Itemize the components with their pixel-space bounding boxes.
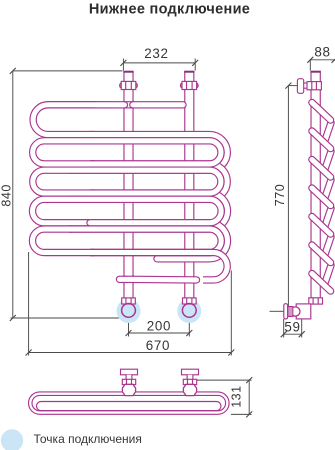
- extension line top of 840: [13, 70, 123, 72]
- side bottom wall nut: [287, 307, 293, 317]
- tick 670 left: [26, 350, 32, 356]
- tick 131 top: [246, 377, 252, 383]
- left riser tube: [123, 71, 133, 300]
- extension line 131 bottom: [231, 413, 252, 415]
- svg-text:131: 131: [229, 385, 243, 407]
- bottom view fitting right : ball: [183, 384, 196, 395]
- bottom view inner tube outline: [37, 402, 222, 411]
- coil return tube of pair 4 with inner right turn 4: [69, 229, 221, 252]
- tick 770 bottom: [285, 308, 291, 314]
- top fitting nut left riser: [121, 81, 136, 89]
- rung joint cup at left riser right edge: [130, 101, 134, 108]
- tick 232 right: [192, 60, 198, 66]
- extension line 88 left: [309, 60, 311, 71]
- side bottom ball: [291, 307, 300, 316]
- bottom crossbar tube: [120, 276, 197, 284]
- side bottom elbow body: [296, 304, 311, 319]
- svg-text:59: 59: [284, 320, 300, 335]
- svg-text:840: 840: [0, 184, 13, 206]
- dimension line 131: [248, 380, 250, 414]
- bottom view outer tube outline: [29, 392, 230, 414]
- top fitting nut right riser: [182, 81, 197, 89]
- coil band tube 5 with outer right turn 4: [90, 223, 228, 259]
- dimension line 670: [29, 352, 232, 354]
- svg-text:770: 770: [273, 184, 287, 206]
- side tube top cap: [310, 71, 320, 73]
- rung joint cap at left riser left edge: [123, 101, 127, 108]
- extension line 59 left: [283, 319, 285, 338]
- side back coil tube 6: [325, 265, 331, 283]
- left coil turn 1: [33, 105, 95, 135]
- svg-text:200: 200: [147, 319, 171, 334]
- side back coil tube 1: [325, 123, 331, 141]
- coil band tube 6 with end turn: [90, 253, 227, 280]
- side top bracket wall plate: [297, 79, 303, 94]
- coil return tube of pair 1 with inner right turn 1: [69, 141, 221, 164]
- bottom view fitting right : valve handle: [182, 369, 199, 375]
- tick 840 top: [10, 68, 16, 74]
- coil band tube 4 with outer right turn 3: [69, 193, 228, 229]
- top tube T1 with crossbar to right riser: [62, 101, 183, 108]
- dimension line 840: [12, 71, 14, 318]
- crossbar joint cup at left riser right edge: [130, 276, 134, 283]
- dimension line 200: [129, 332, 190, 334]
- extension line 770 bottom: [270, 310, 284, 312]
- side coil tube 1: [312, 103, 331, 121]
- extension line left of 670: [28, 252, 30, 356]
- bottom view fitting left : ball: [122, 384, 135, 395]
- extension line 131 top: [196, 379, 252, 381]
- tick 200 left: [126, 330, 132, 336]
- extension line right of 670: [230, 271, 232, 356]
- bottom view middle tube outline: [32, 395, 226, 410]
- coil band tube 3 with outer right turn 2: [69, 164, 227, 199]
- svg-text:Точка подключения: Точка подключения: [34, 432, 142, 446]
- left coil turn 2: [33, 141, 95, 164]
- side back coil tube 2: [325, 151, 331, 169]
- side top bracket arm: [303, 82, 312, 88]
- left coil turn 5: [32, 229, 95, 252]
- side back coil tube 3: [325, 180, 331, 198]
- coil return tube of pair 3 with inner right turn 3: [69, 199, 221, 222]
- left riser top cap: [123, 71, 133, 73]
- tick 59 left: [281, 331, 287, 337]
- tick 59 right: [299, 331, 305, 337]
- bottom view fitting left : stem: [126, 375, 133, 380]
- svg-text:Нижнее подключение: Нижнее подключение: [89, 1, 250, 17]
- side coil tube 7: [312, 274, 331, 292]
- side coil tube 3: [312, 160, 331, 178]
- side back coil tube 4: [325, 208, 331, 226]
- tick 770 top: [285, 83, 291, 89]
- extension line 770 top: [288, 85, 297, 87]
- tick 88 right: [332, 57, 335, 63]
- side coil tube 4: [312, 188, 331, 206]
- legend connection point circle: [1, 429, 23, 450]
- bottom nut left riser: [122, 298, 136, 304]
- coil band tube 2 with outer right turn 1: [69, 135, 227, 171]
- tick 131 bottom: [246, 411, 252, 417]
- extension line right of 232: [194, 59, 196, 71]
- extension line right of 200: [188, 319, 190, 337]
- left coil turn 4: [33, 199, 96, 222]
- side top fitting nut: [307, 82, 321, 90]
- dimension line 88: [310, 59, 335, 61]
- left coil turn 3: [33, 170, 95, 193]
- top fitting balls left riser: [120, 83, 125, 88]
- bottom view fitting right : stem: [187, 375, 194, 380]
- dimension line 59: [284, 333, 302, 335]
- side back coil tube 5: [325, 237, 331, 255]
- side bottom wall plate: [284, 304, 288, 319]
- crossbar joint cap at left riser left edge: [123, 276, 127, 283]
- top fitting balls right riser: [180, 83, 185, 88]
- bottom view fitting left : valve handle: [121, 369, 138, 375]
- side coil tube 6: [312, 245, 331, 263]
- side coil tube 5: [312, 217, 331, 235]
- extension line bottom of 840: [11, 317, 121, 319]
- tick 232 left: [120, 60, 126, 66]
- bottom view fitting right : nut: [183, 379, 196, 384]
- tick 670 right: [228, 350, 234, 356]
- right riser tube: [184, 71, 194, 300]
- dimension line 770: [287, 86, 289, 312]
- bottom nut right riser: [183, 298, 197, 304]
- side bottom nut on tube: [309, 298, 323, 304]
- tick 88 left: [307, 57, 313, 63]
- side view vertical tube: [310, 71, 320, 298]
- dimension line 232: [123, 62, 195, 64]
- connection point highlight right: [177, 299, 201, 323]
- svg-text:232: 232: [144, 46, 168, 61]
- bottom ball right riser: [182, 304, 196, 318]
- tick 840 bottom: [10, 315, 16, 321]
- extension line left of 200: [128, 319, 130, 337]
- svg-text:88: 88: [314, 45, 330, 60]
- connection point highlight left: [117, 299, 141, 323]
- right riser top cap: [184, 71, 194, 73]
- side coil tube 2: [312, 131, 331, 149]
- coil return tube of pair 2 with inner right turn 2: [69, 170, 221, 193]
- bottom view fitting left : nut: [122, 379, 135, 384]
- svg-text:670: 670: [146, 338, 170, 353]
- tick 200 right: [186, 330, 192, 336]
- extension line 59 right: [301, 306, 303, 338]
- bottom ball left riser: [122, 304, 136, 318]
- extension line left of 232: [122, 59, 124, 71]
